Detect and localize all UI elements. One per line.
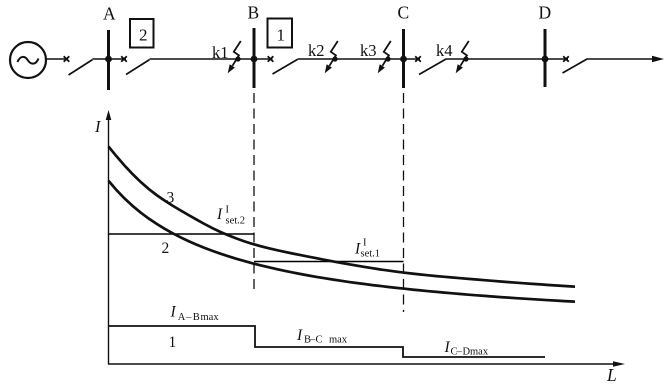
svg-text:A: A [178, 312, 186, 323]
svg-text:I: I [444, 339, 451, 356]
svg-text:I: I [363, 238, 367, 249]
svg-text:set.2: set.2 [226, 216, 246, 227]
svg-text:B: B [193, 312, 200, 323]
wire outgoing feeder with arrow [588, 56, 665, 62]
svg-text:k4: k4 [436, 41, 453, 60]
label Iset1 [354, 238, 380, 260]
distance axis L [108, 361, 625, 367]
current axis I [106, 110, 112, 364]
svg-text:I: I [296, 327, 303, 344]
svg-text:I: I [226, 205, 230, 216]
svg-text:1: 1 [277, 26, 286, 45]
svg-text:C: C [316, 335, 323, 346]
axis label I [94, 117, 102, 136]
disconnector blade S3 [273, 59, 298, 74]
svg-text:k3: k3 [360, 41, 377, 60]
disconnector blade S5 [563, 59, 588, 73]
svg-text:I: I [94, 117, 102, 136]
svg-text:k1: k1 [212, 43, 229, 62]
junction dot on bus D [542, 56, 549, 63]
fault dot k3 [385, 56, 390, 61]
fault bolt k4 [456, 41, 469, 73]
label B [248, 3, 260, 23]
fault bolt k1 [228, 41, 241, 73]
fault bolt k2 [325, 41, 338, 73]
label IA-B max [170, 304, 220, 324]
disconnector blade S4 [419, 59, 447, 75]
disconnector blade S1 [69, 60, 93, 75]
relay box 1 [268, 19, 293, 48]
wire B-C line section [298, 58, 404, 60]
wire bus B to breaker QF3 [254, 58, 273, 60]
wire bus D to breaker QF5 [545, 58, 568, 60]
dashed projection line from bus B [253, 93, 255, 290]
svg-text:max: max [329, 335, 348, 346]
svg-text:I: I [216, 206, 223, 223]
wire bus A to breaker QF2 [109, 58, 127, 60]
svg-text:–: – [185, 312, 192, 323]
svg-text:2: 2 [139, 26, 148, 45]
wire C-D line section [447, 58, 546, 60]
fault dot k1 [235, 56, 240, 61]
step curve 1 load currents [109, 326, 546, 357]
label k1 [212, 43, 229, 62]
wire generator to breaker QF1 [46, 58, 68, 60]
svg-text:D: D [539, 3, 552, 23]
label IC-D max [444, 339, 489, 358]
bus A [107, 30, 110, 90]
bus C [402, 29, 405, 88]
fault dot k4 [463, 56, 468, 61]
svg-text:set.1: set.1 [361, 249, 381, 260]
wire bus C to breaker QF4 [404, 58, 421, 60]
svg-text:C: C [398, 3, 410, 23]
wire blade S1 to bus A [93, 58, 109, 60]
setting level line Iset2 [109, 233, 255, 235]
fault bolt k3 [378, 41, 391, 73]
bus B [253, 28, 256, 88]
fault dot k2 [332, 56, 337, 61]
axis label L [606, 365, 617, 385]
relay box 2 [130, 19, 154, 48]
breaker x-mark QF2 [121, 56, 127, 62]
svg-text:k2: k2 [308, 41, 325, 60]
svg-text:2: 2 [162, 240, 170, 257]
label C [398, 3, 410, 23]
svg-text:A: A [103, 4, 116, 24]
disconnector blade S2 [126, 60, 150, 75]
dashed projection line from bus C [403, 93, 405, 312]
label curve 3 [167, 190, 175, 207]
svg-text:max: max [470, 347, 489, 358]
label k4 [436, 41, 453, 60]
junction dot on bus B [251, 56, 258, 63]
svg-text:–: – [456, 347, 463, 358]
label k2 [308, 41, 325, 60]
breaker x-mark QF3 [268, 56, 274, 62]
label curve 2 [162, 240, 170, 257]
wire A-B line section [150, 58, 255, 60]
label IB-C max [296, 327, 348, 346]
junction dot on bus C [400, 56, 407, 63]
generator G [10, 42, 46, 78]
curve 3 relay-2 characteristic [109, 147, 576, 287]
setting level line Iset1 [254, 261, 404, 263]
svg-text:B: B [248, 3, 260, 23]
junction dot on bus A [105, 56, 112, 63]
svg-text:L: L [606, 365, 617, 385]
svg-text:1: 1 [169, 334, 177, 351]
curve 2 relay-1 characteristic [109, 181, 576, 302]
svg-text:I: I [170, 304, 177, 321]
label A [103, 4, 116, 24]
breaker x-mark QF1 [64, 56, 70, 62]
breaker x-mark QF5 [563, 56, 569, 62]
label D [539, 3, 552, 23]
label Iset2 [216, 205, 245, 227]
svg-text:3: 3 [167, 190, 175, 207]
breaker x-mark QF4 [415, 56, 421, 62]
label k3 [360, 41, 377, 60]
svg-text:max: max [201, 312, 220, 323]
bus D [544, 29, 547, 87]
label curve 1 [169, 334, 177, 351]
